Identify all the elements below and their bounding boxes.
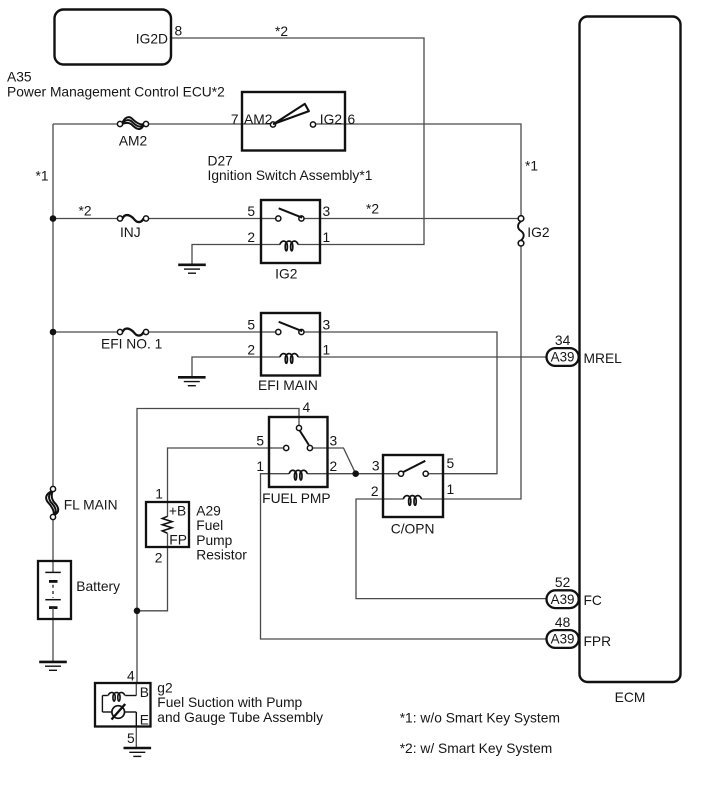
battery bbox=[38, 561, 71, 619]
svg-text:48: 48 bbox=[555, 615, 571, 630]
svg-text:3: 3 bbox=[330, 433, 338, 448]
wire FUEL PMP pin 5 to resistor A29 pin 1 bbox=[168, 448, 270, 502]
ground (fuel pump) bbox=[124, 748, 152, 756]
switch D27 ignition switch bbox=[242, 92, 345, 151]
wire rail to fuse INJ bbox=[53, 218, 120, 220]
fusible link FL MAIN bbox=[46, 486, 58, 519]
svg-text:*1: *1 bbox=[36, 169, 49, 184]
junction fuel pump rail / resistor return bbox=[134, 608, 141, 615]
svg-text:*2: *2 bbox=[79, 204, 92, 219]
wire relay IG2 pin 2 to ground bbox=[192, 245, 261, 265]
svg-text:Resistor: Resistor bbox=[196, 548, 247, 563]
ECU A35 box bbox=[55, 10, 172, 65]
svg-text:5: 5 bbox=[447, 456, 455, 471]
svg-text:6: 6 bbox=[348, 112, 356, 127]
svg-text:4: 4 bbox=[127, 668, 135, 683]
wire relay EFI MAIN pin 3 to C/OPN pin 5 bbox=[320, 332, 497, 474]
fusible link AM2 bbox=[117, 117, 148, 129]
svg-text:A39: A39 bbox=[551, 592, 575, 607]
svg-text:*2: *2 bbox=[366, 202, 379, 217]
junction rail/EFI row bbox=[50, 329, 57, 336]
svg-text:2: 2 bbox=[247, 230, 255, 245]
svg-text:and Gauge Tube Assembly: and Gauge Tube Assembly bbox=[157, 710, 323, 725]
svg-text:E: E bbox=[140, 712, 149, 727]
svg-text:8: 8 bbox=[175, 24, 183, 39]
svg-text:A35: A35 bbox=[7, 70, 32, 85]
svg-text:*2: w/ Smart Key System: *2: w/ Smart Key System bbox=[400, 741, 553, 756]
svg-text:Fuel Suction with Pump: Fuel Suction with Pump bbox=[157, 695, 302, 710]
svg-text:7: 7 bbox=[231, 112, 239, 127]
wire relay EFI MAIN pin 2 to ground bbox=[192, 357, 261, 377]
connector A39 FC pin 52 bbox=[547, 590, 579, 608]
svg-text:EFI NO. 1: EFI NO. 1 bbox=[101, 336, 162, 351]
ECU ECM box bbox=[580, 17, 681, 683]
svg-text:MREL: MREL bbox=[584, 351, 623, 366]
svg-text:*1: *1 bbox=[525, 159, 538, 174]
wire fuse AM2 to D27 pin 7 bbox=[146, 123, 242, 125]
svg-text:D27: D27 bbox=[208, 154, 233, 169]
svg-text:5: 5 bbox=[247, 204, 255, 219]
svg-text:A39: A39 bbox=[551, 632, 575, 647]
wire relay EFI MAIN pin 1 to A39 MREL bbox=[320, 356, 547, 358]
svg-text:1: 1 bbox=[256, 459, 264, 474]
svg-text:34: 34 bbox=[555, 333, 571, 348]
wire relay IG2 pin 3 to connector IG2 bbox=[320, 218, 518, 220]
svg-text:1: 1 bbox=[323, 342, 331, 357]
svg-text:1: 1 bbox=[323, 230, 331, 245]
ground (battery) bbox=[39, 662, 67, 670]
svg-text:B: B bbox=[140, 685, 149, 700]
relay FUEL PMP bbox=[269, 417, 328, 487]
connector IG2 (in-line) bbox=[518, 216, 524, 246]
svg-text:IG2: IG2 bbox=[320, 112, 342, 127]
svg-text:5: 5 bbox=[256, 433, 264, 448]
svg-text:FPR: FPR bbox=[584, 634, 612, 649]
wire battery to ground bbox=[52, 619, 54, 662]
connector A39 FPR pin 48 bbox=[547, 630, 579, 648]
wire FUEL PMP pin 4 to fuel pump rail bbox=[137, 409, 299, 684]
svg-text:2: 2 bbox=[155, 551, 163, 566]
svg-text:Power Management Control ECU*2: Power Management Control ECU*2 bbox=[7, 85, 225, 100]
svg-text:FP: FP bbox=[169, 533, 187, 548]
wire FUEL PMP pin 1 to A39 FPR bbox=[261, 474, 547, 639]
svg-text:2: 2 bbox=[247, 343, 255, 358]
svg-text:52: 52 bbox=[555, 575, 570, 590]
wire g2 pin 5 to ground bbox=[135, 727, 137, 748]
svg-text:ECM: ECM bbox=[615, 690, 646, 705]
wire left battery rail bbox=[52, 124, 54, 489]
svg-text:IG2D: IG2D bbox=[136, 31, 168, 46]
svg-text:C/OPN: C/OPN bbox=[391, 522, 435, 537]
resistor A29 bbox=[146, 502, 189, 547]
svg-text:5: 5 bbox=[127, 731, 135, 746]
svg-text:3: 3 bbox=[323, 317, 331, 332]
svg-text:+B: +B bbox=[169, 503, 186, 518]
svg-text:*2: *2 bbox=[275, 24, 288, 39]
junction FUEL PMP pins 2-3 to C/OPN pin 3 bbox=[352, 470, 359, 477]
fuse EFI NO. 1 bbox=[117, 329, 148, 336]
svg-text:1: 1 bbox=[155, 486, 163, 501]
svg-text:INJ: INJ bbox=[120, 225, 141, 240]
wire C/OPN pin 2 to A39 FC bbox=[356, 499, 547, 599]
ground (IG2 relay coil) bbox=[178, 265, 206, 273]
fuse INJ bbox=[117, 215, 148, 222]
svg-text:A39: A39 bbox=[551, 350, 575, 365]
svg-text:Fuel: Fuel bbox=[196, 518, 223, 533]
svg-text:FC: FC bbox=[584, 593, 602, 608]
wire junction to C/OPN pin 3 bbox=[356, 473, 383, 475]
svg-text:AM2: AM2 bbox=[119, 133, 147, 148]
wire fuse INJ to relay IG2 pin 5 bbox=[146, 218, 261, 220]
svg-text:IG2: IG2 bbox=[275, 266, 297, 281]
svg-text:EFI MAIN: EFI MAIN bbox=[258, 378, 318, 393]
svg-text:AM2: AM2 bbox=[244, 112, 272, 127]
svg-text:2: 2 bbox=[371, 484, 379, 499]
junction rail/INJ row bbox=[50, 215, 57, 222]
wire resistor A29 pin 2 to junction bbox=[137, 547, 168, 611]
wire FUEL PMP pin 2 to junction bbox=[328, 473, 356, 475]
svg-text:1: 1 bbox=[447, 482, 455, 497]
wire connector IG2 to C/OPN pin 1 bbox=[443, 246, 521, 499]
svg-text:Battery: Battery bbox=[76, 579, 120, 594]
svg-text:FUEL PMP: FUEL PMP bbox=[262, 491, 331, 506]
svg-text:FL MAIN: FL MAIN bbox=[64, 497, 118, 512]
wire FUEL PMP pin 3 to junction bbox=[328, 448, 356, 474]
wire FL MAIN to battery bbox=[52, 517, 54, 561]
svg-text:g2: g2 bbox=[157, 680, 172, 695]
wire rail to fuse EFI NO. 1 bbox=[53, 331, 120, 333]
wire D27 pin 6 to connector IG2 bbox=[345, 124, 521, 216]
relay EFI MAIN bbox=[261, 313, 320, 376]
ground (EFI MAIN relay coil) bbox=[178, 377, 206, 385]
wire fuse EFI NO. 1 to relay EFI MAIN pin 5 bbox=[146, 331, 261, 333]
motor g2 fuel pump assembly bbox=[95, 683, 151, 727]
svg-text:2: 2 bbox=[330, 459, 338, 474]
svg-text:*1: w/o Smart Key System: *1: w/o Smart Key System bbox=[400, 710, 560, 725]
svg-text:3: 3 bbox=[323, 204, 331, 219]
relay IG2 bbox=[261, 200, 320, 263]
connector A39 MREL pin 34 bbox=[547, 348, 579, 366]
relay C/OPN bbox=[383, 455, 443, 517]
svg-text:IG2: IG2 bbox=[527, 225, 549, 240]
svg-text:4: 4 bbox=[303, 400, 311, 415]
wire IG2D pin 8 to IG2 relay pin 1 bbox=[171, 38, 424, 245]
svg-text:Pump: Pump bbox=[196, 533, 232, 548]
svg-text:3: 3 bbox=[372, 459, 380, 474]
wire rail corner to fuse AM2 bbox=[53, 123, 120, 125]
svg-text:5: 5 bbox=[247, 317, 255, 332]
svg-text:A29: A29 bbox=[196, 503, 221, 518]
svg-text:Ignition Switch Assembly*1: Ignition Switch Assembly*1 bbox=[208, 168, 373, 183]
